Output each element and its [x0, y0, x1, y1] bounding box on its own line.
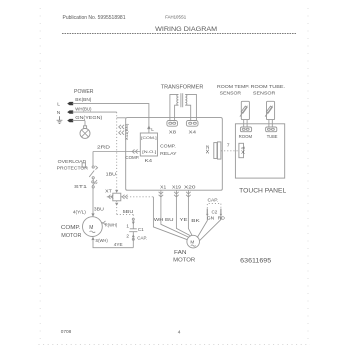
svg-text:COMP.: COMP.	[160, 143, 176, 149]
ground symbol (power earth)	[57, 116, 63, 123]
connector ROOM	[240, 127, 251, 132]
svg-text:63611695: 63611695	[240, 257, 271, 264]
svg-text:BK(BN): BK(BN)	[75, 97, 91, 102]
svg-text:L: L	[57, 101, 60, 107]
power plug terminal N	[67, 110, 73, 113]
svg-text:X8: X8	[169, 129, 177, 135]
svg-text:4(Y/L): 4(Y/L)	[73, 210, 87, 215]
svg-text:Publication No. 5995518981: Publication No. 5995518981	[63, 15, 126, 21]
svg-text:FAN: FAN	[174, 250, 187, 256]
fan motor M2	[187, 235, 200, 248]
svg-text:COMP.: COMP.	[125, 155, 139, 160]
relay K4 outline	[140, 133, 157, 156]
XT top pin arrow	[115, 190, 118, 193]
wire 2RD from relay N.O. to overload protector	[93, 152, 140, 167]
connector TUBE	[266, 127, 277, 132]
connector X20 chevrons	[186, 190, 191, 199]
transformer core	[181, 93, 183, 107]
svg-text:MOTOR: MOTOR	[173, 257, 195, 263]
svg-text:WH: WH	[154, 217, 164, 222]
wire 4YE from motor S to capacitor C1	[93, 240, 133, 248]
capacitor C1	[132, 218, 134, 220]
main control board outline	[126, 118, 223, 191]
svg-text:1BU: 1BU	[106, 171, 117, 177]
svg-text:WIRING DIAGRAM: WIRING DIAGRAM	[155, 26, 217, 33]
connector X19 chevrons	[174, 190, 179, 199]
wire WH from X1 to fan motor	[161, 200, 189, 238]
svg-text:CAP.: CAP.	[208, 197, 219, 202]
motor terminal R(WH)	[101, 222, 103, 224]
svg-text:MOTOR: MOTOR	[61, 233, 81, 239]
svg-text:GN: GN	[207, 215, 215, 220]
svg-text:X2: X2	[205, 144, 210, 154]
svg-text:1: 1	[126, 224, 129, 229]
connector X4	[186, 121, 198, 127]
svg-text:S(WH): S(WH)	[95, 238, 108, 243]
svg-text:4: 4	[178, 330, 181, 336]
svg-text:[N.O.]: [N.O.]	[142, 149, 156, 154]
svg-text:X20: X20	[184, 185, 196, 190]
tube sensor RT2 (thermistor)	[267, 101, 275, 119]
connector X11 chevrons at board left edge	[119, 125, 124, 135]
wire GN(YEGN) to chassis ground	[73, 121, 86, 126]
wire GN from C2 to fan motor	[197, 216, 207, 237]
motor terminal S(WH) bottom pin	[91, 237, 94, 241]
XT right pin wire to fan motor WH	[121, 196, 154, 198]
touch panel board outline	[235, 124, 284, 178]
svg-text:SENSOR: SENSOR	[253, 90, 276, 96]
svg-text:K4: K4	[145, 158, 153, 164]
svg-text:BU: BU	[165, 217, 174, 222]
connector X8	[167, 121, 178, 127]
svg-text:2RD: 2RD	[97, 145, 111, 151]
connector X2 on main board	[214, 143, 217, 159]
svg-text:BK: BK	[191, 218, 201, 223]
svg-text:M: M	[190, 240, 194, 245]
wire WH(BU) from N, horizontal	[73, 111, 117, 113]
svg-text:X4: X4	[189, 129, 197, 135]
svg-text:ROOM TUBE.: ROOM TUBE.	[251, 84, 285, 90]
svg-text:X1: X1	[160, 185, 166, 190]
svg-text:X11(BN): X11(BN)	[125, 123, 129, 140]
svg-text:C1: C1	[138, 227, 144, 232]
svg-text:YE: YE	[180, 217, 188, 222]
wire stub N to board edge	[117, 117, 126, 119]
wire WH(BU) vertical down to terminal XT	[116, 112, 118, 193]
svg-text:TUBE: TUBE	[267, 134, 278, 139]
wire BU to fan motor	[176, 200, 191, 237]
wire 7 from X2 to X1 (ribbon)	[221, 150, 239, 152]
transformer T1 primary winding	[177, 94, 179, 105]
svg-text:GN(YEGN): GN(YEGN)	[75, 115, 103, 120]
transformer T1 secondary winding	[185, 94, 187, 105]
overload protector switch	[92, 166, 94, 168]
svg-text:CAP.: CAP.	[137, 235, 147, 240]
power plug terminal GND	[67, 119, 73, 122]
power plug terminal L	[67, 102, 73, 105]
svg-text:5BU: 5BU	[123, 209, 135, 214]
svg-text:L: L	[151, 127, 154, 132]
svg-text:TRANSFORMER: TRANSFORMER	[161, 84, 204, 90]
svg-text:2: 2	[126, 233, 129, 238]
compressor motor top pin	[91, 213, 94, 217]
svg-text:4YE: 4YE	[114, 242, 123, 247]
svg-text:RD: RD	[218, 215, 226, 220]
wire BK(BN) from L to relay K4 COM	[73, 104, 149, 133]
chassis ground screw symbol	[84, 126, 87, 129]
connector chevrons on 2RD wire at board edge	[132, 149, 137, 153]
svg-text:3BU: 3BU	[94, 206, 105, 211]
connector X1 on touch panel	[239, 143, 244, 157]
svg-text:X19: X19	[172, 185, 181, 190]
svg-text:ROOM: ROOM	[239, 134, 253, 139]
wire BK to fan motor	[188, 200, 192, 236]
svg-text:ROOM TEMP.: ROOM TEMP.	[217, 84, 250, 90]
wire 3BU to compressor motor	[92, 188, 94, 214]
connector X1 chevrons	[159, 190, 164, 199]
svg-text:XT: XT	[105, 189, 112, 194]
svg-text:COMP.: COMP.	[61, 225, 81, 231]
svg-text:FAH105S1: FAH105S1	[165, 15, 186, 21]
room temp sensor RT1 (thermistor)	[241, 101, 249, 119]
svg-text:TOUCH PANEL: TOUCH PANEL	[239, 188, 287, 195]
terminal block XT	[113, 193, 121, 201]
svg-text:N: N	[57, 110, 61, 116]
svg-text:M: M	[89, 225, 93, 231]
svg-text:0708: 0708	[61, 329, 72, 335]
compressor motor M1	[83, 217, 103, 237]
svg-text:X1: X1	[241, 145, 246, 154]
svg-text:PROTECTOR: PROTECTOR	[57, 166, 89, 171]
svg-text:WH(BU): WH(BU)	[75, 106, 92, 111]
svg-text:ST1: ST1	[74, 184, 87, 190]
XT left pin stub with chevrons	[107, 195, 114, 199]
svg-text:POWER: POWER	[74, 89, 94, 95]
svg-text:C2: C2	[212, 210, 218, 215]
svg-text:[COM.]: [COM.]	[141, 135, 156, 140]
svg-text:R(WH): R(WH)	[105, 223, 118, 228]
XT bottom pin wire 5BU to capacitor C1	[117, 201, 134, 219]
svg-text:7: 7	[227, 143, 230, 148]
relay K4 input arrow from line L	[147, 125, 151, 129]
svg-text:SENSOR: SENSOR	[220, 90, 242, 96]
svg-text:RELAY: RELAY	[160, 151, 177, 157]
wire RD from C2 to fan motor	[200, 216, 221, 240]
